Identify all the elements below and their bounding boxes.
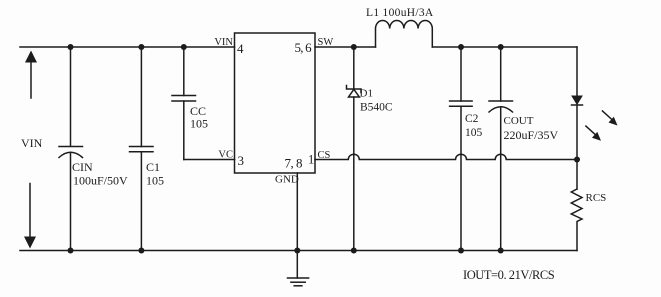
wire top rail right segment — [432, 46, 577, 48]
node top CC — [181, 44, 187, 50]
node CS / RCS — [574, 157, 580, 163]
capacitor C1 — [130, 47, 154, 251]
node GND on bottom rail — [294, 248, 300, 254]
node top C1 — [138, 44, 144, 50]
CIN value label — [72, 160, 128, 188]
wire CS line with hops — [315, 154, 577, 159]
node bottom CIN — [68, 248, 74, 254]
svg-text:220uF/35V: 220uF/35V — [504, 128, 559, 142]
node top C2 — [458, 44, 464, 50]
svg-text:C1: C1 — [146, 160, 160, 174]
svg-text:B540C: B540C — [360, 102, 393, 114]
node top COUT — [498, 44, 504, 50]
wire VC to IC — [184, 159, 235, 161]
node bottom COUT — [498, 248, 504, 254]
svg-text:3: 3 — [238, 153, 245, 168]
wire top rail left segment — [20, 46, 235, 48]
svg-text:VIN: VIN — [21, 136, 43, 150]
svg-text:100uF/50V: 100uF/50V — [73, 174, 128, 188]
inductor L1 — [376, 20, 433, 47]
wire SW segment — [315, 46, 376, 48]
svg-text:CIN: CIN — [72, 160, 93, 174]
svg-text:C2: C2 — [465, 113, 479, 125]
LED D2 — [572, 96, 583, 160]
node bottom D1 — [351, 248, 357, 254]
svg-text:L1 100uH/3A: L1 100uH/3A — [366, 7, 434, 19]
wire GND pin — [296, 173, 298, 251]
C2 value label — [465, 113, 483, 139]
VIN input up arrow — [25, 51, 37, 99]
svg-text:VC: VC — [218, 150, 233, 161]
wire LED node to RCS — [576, 160, 578, 190]
svg-text:1: 1 — [308, 153, 314, 167]
op-amp U1 IC body — [235, 33, 316, 173]
svg-text:5, 6: 5, 6 — [295, 40, 313, 55]
LED emission arrow upper — [602, 111, 617, 126]
node bottom C1 — [138, 248, 144, 254]
VIN input down arrow — [24, 184, 36, 249]
C1 value label — [146, 160, 164, 188]
capacitor C2 — [450, 47, 473, 251]
svg-text:RCS: RCS — [586, 192, 607, 204]
node bottom C2 — [458, 248, 464, 254]
svg-text:GND: GND — [275, 174, 299, 186]
resistor RCS — [571, 189, 582, 251]
svg-text:COUT: COUT — [504, 115, 534, 127]
svg-text:IOUT=0. 21V/RCS: IOUT=0. 21V/RCS — [463, 268, 555, 282]
svg-text:VIN: VIN — [214, 37, 233, 48]
svg-text:105: 105 — [146, 174, 164, 188]
node SW / D1 — [351, 44, 357, 50]
svg-text:4: 4 — [237, 41, 244, 56]
ground — [288, 251, 309, 286]
svg-text:SW: SW — [318, 37, 334, 48]
diode D1 schottky — [347, 47, 362, 251]
svg-text:105: 105 — [465, 127, 483, 139]
capacitor CIN — [59, 47, 83, 251]
svg-text:105: 105 — [190, 117, 208, 131]
node top CIN — [68, 44, 74, 50]
wire bottom rail — [20, 250, 577, 252]
svg-text:7, 8: 7, 8 — [285, 156, 303, 171]
capacitor COUT — [489, 47, 513, 251]
LED emission arrow lower — [586, 126, 601, 141]
svg-text:D1: D1 — [360, 88, 373, 100]
wire right vertical to LED — [576, 47, 578, 96]
CC value label — [190, 104, 208, 131]
COUT value label — [504, 115, 559, 142]
capacitor CC — [172, 47, 196, 160]
